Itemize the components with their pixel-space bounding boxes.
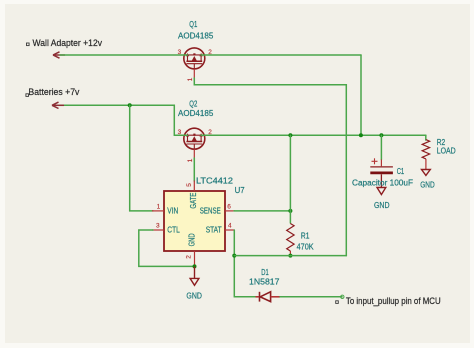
- wire diode to MCU label: [280, 296, 342, 298]
- wire Vout to SENSE vertical: [289, 135, 291, 211]
- svg-text:AOD4185: AOD4185: [178, 108, 214, 118]
- svg-text:R1: R1: [301, 231, 310, 241]
- svg-text:GND: GND: [187, 233, 196, 246]
- pin 6 SENSE (right): [225, 210, 235, 212]
- svg-text:Batteries +7v: Batteries +7v: [28, 87, 79, 98]
- Q1 gate pin: [193, 69, 195, 79]
- wire SENSE to R1 top: [234, 210, 290, 212]
- junction GND/CTL below IC: [193, 264, 197, 268]
- svg-text:4: 4: [228, 223, 232, 230]
- svg-text:C1: C1: [397, 166, 405, 176]
- C1 plus sign: [372, 158, 378, 164]
- svg-text:470K: 470K: [297, 242, 314, 252]
- resistor R2: [422, 140, 431, 176]
- dangling wire end: [341, 295, 344, 298]
- svg-text:Wall Adapter +12v: Wall Adapter +12v: [33, 38, 103, 49]
- Q2 gate pin: [193, 149, 195, 159]
- diode D1: [256, 292, 281, 302]
- wire from batteries tee down to VIN: [130, 105, 153, 211]
- wire below SENSE junction into R1: [289, 211, 291, 223]
- ground below IC: [190, 266, 199, 285]
- junction batteries/VIN tee: [128, 103, 132, 107]
- svg-text:Q2: Q2: [189, 98, 197, 108]
- svg-text:AOD4185: AOD4185: [178, 30, 214, 40]
- capacitor C1: [380, 135, 382, 159]
- svg-text:GND: GND: [186, 291, 202, 301]
- wire Batteries rail: [60, 105, 174, 135]
- wire Q2 gate down to IC GATE pin: [193, 158, 195, 181]
- svg-text:GATE: GATE: [189, 193, 198, 209]
- svg-text:GND: GND: [374, 200, 390, 210]
- svg-text:3: 3: [156, 223, 160, 230]
- svg-text:1: 1: [187, 158, 194, 162]
- wire Wall Adapter rail left segment: [60, 54, 188, 56]
- svg-text:2: 2: [186, 255, 193, 259]
- wire Vout rail corner down to R2: [425, 135, 427, 140]
- wire Vout rail: [201, 134, 426, 136]
- junction Vout/wall-vertical: [359, 133, 363, 137]
- wire CTL loop: [139, 230, 195, 266]
- wire batteries into Q2: [174, 134, 187, 136]
- svg-text:U7: U7: [235, 185, 245, 195]
- svg-text:CTL: CTL: [167, 226, 180, 235]
- pin 3 CTL (left): [152, 229, 164, 231]
- wall adapter arrow: [53, 52, 65, 58]
- svg-text:VIN: VIN: [167, 207, 178, 216]
- wire Q1 gate to STAT line: [194, 78, 346, 256]
- svg-text:Q1: Q1: [189, 19, 197, 29]
- svg-text:To input_pullup pin of MCU: To input_pullup pin of MCU: [346, 296, 441, 307]
- wire STAT rail horizontal: [234, 255, 346, 257]
- wire Wall Adapter rail right segment: [201, 54, 361, 56]
- svg-text:1: 1: [187, 77, 194, 81]
- wire STAT pin corner down: [234, 230, 255, 297]
- batteries arrow: [52, 102, 64, 108]
- svg-text:GND: GND: [420, 180, 435, 190]
- svg-text:STAT: STAT: [206, 226, 222, 235]
- transistor Q2: [178, 128, 213, 162]
- junction Vout/C1: [379, 133, 383, 137]
- junction SENSE/R1: [288, 209, 292, 213]
- svg-text:Capacitor 100uF: Capacitor 100uF: [352, 178, 413, 188]
- IC U7 LTC4412 body: [164, 191, 225, 251]
- svg-text:LTC4412: LTC4412: [196, 176, 233, 186]
- junction Vout/R1: [288, 133, 292, 137]
- pin 2 GND (bottom): [194, 251, 196, 266]
- svg-text:LOAD: LOAD: [437, 145, 456, 155]
- pin 1 VIN (left): [152, 210, 164, 212]
- resistor R1: [287, 224, 294, 256]
- svg-text:5: 5: [186, 183, 193, 187]
- svg-text:SENSE: SENSE: [200, 207, 221, 216]
- pin 5 GATE (top): [193, 181, 195, 192]
- svg-text:1N5817: 1N5817: [249, 276, 280, 286]
- svg-text:6: 6: [227, 203, 231, 210]
- junction R1 bottom / STAT rail: [288, 254, 292, 258]
- svg-text:1: 1: [157, 203, 161, 210]
- transistor Q1: [178, 48, 213, 81]
- pin 4 STAT (right): [225, 229, 234, 231]
- junction STAT rail tee: [232, 254, 236, 258]
- wire vertical from wall rail down to Vout rail: [360, 55, 362, 135]
